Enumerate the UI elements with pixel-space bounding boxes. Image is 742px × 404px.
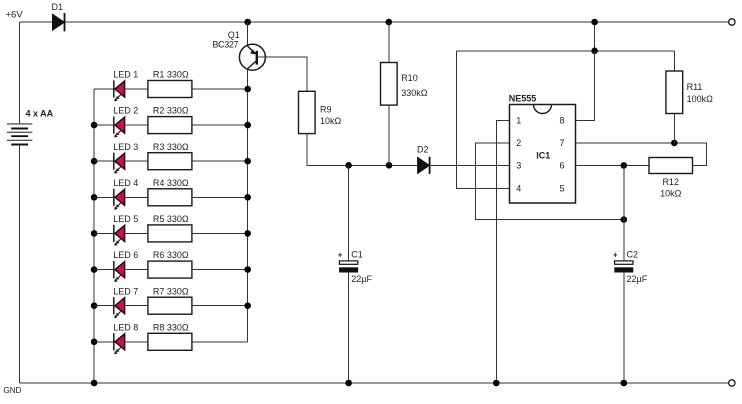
wire IC1 pin 2 lead bbox=[475, 143, 624, 220]
svg-text:22µF: 22µF bbox=[351, 274, 372, 284]
wire LED 1 cathode lead bbox=[94, 88, 114, 90]
node pin6 / R12 / C2 junction bbox=[621, 162, 628, 169]
wire left supply drop (top) bbox=[19, 22, 21, 124]
wire D2 cathode to IC1 pin 3 bbox=[430, 164, 510, 166]
wire Q1 base to R9 bbox=[257, 57, 307, 91]
node collector bus junction row 5 bbox=[244, 230, 251, 237]
resistor R7 330ohm bbox=[148, 286, 192, 314]
wire LED 5 cathode lead bbox=[94, 232, 114, 234]
wire LED 2 anode to R2 bbox=[125, 124, 148, 126]
wire R9 bottom to node line bbox=[307, 134, 349, 166]
wire LED 8 cathode lead bbox=[94, 341, 114, 343]
wire LED 7 anode to R7 bbox=[125, 305, 148, 307]
wire Q1 collector bus (right vertical) bbox=[247, 68, 249, 342]
wire LED 1 anode to R1 bbox=[125, 88, 148, 90]
svg-text:7: 7 bbox=[560, 138, 565, 148]
svg-text:LED 4: LED 4 bbox=[113, 178, 138, 188]
wire LED 8 anode to R8 bbox=[125, 341, 148, 343]
wire C2 bottom lead bbox=[623, 272, 625, 383]
node GND output terminal (open circle) bbox=[729, 380, 735, 386]
svg-text:BC327: BC327 bbox=[212, 40, 238, 50]
wire timing node to D2 anode bbox=[349, 164, 418, 166]
node distribution junction bbox=[591, 48, 598, 55]
resistor R12 10k bbox=[649, 158, 693, 199]
svg-text:R1 330Ω: R1 330Ω bbox=[153, 70, 189, 80]
node collector bus junction row 2 bbox=[244, 122, 251, 129]
wire R2 to collector bus bbox=[192, 124, 248, 126]
resistor R10 330k bbox=[381, 63, 428, 106]
wire IC1 pin 7 lead to R12 bbox=[576, 143, 707, 166]
resistor R11 100k bbox=[666, 71, 713, 114]
wire R4 to collector bus bbox=[192, 196, 248, 198]
LED LED7 bbox=[113, 286, 138, 318]
capacitor C1 22uF bbox=[338, 250, 373, 284]
wire R11 bottom lead bbox=[673, 114, 675, 143]
diode D2 bbox=[417, 145, 430, 174]
wire LED 3 anode to R3 bbox=[125, 160, 148, 162]
LED LED3 bbox=[113, 142, 138, 174]
node LED bus junction row 4 bbox=[91, 194, 98, 201]
svg-text:LED 7: LED 7 bbox=[113, 286, 138, 296]
node pin1 to GND rail bbox=[493, 380, 500, 387]
wire IC1 pin 1 lead to GND bbox=[496, 120, 509, 383]
node LED bus junction row 7 bbox=[91, 302, 98, 309]
node LED bus junction row 2 bbox=[91, 122, 98, 129]
svg-text:R7 330Ω: R7 330Ω bbox=[153, 286, 189, 296]
svg-text:R3 330Ω: R3 330Ω bbox=[153, 142, 189, 152]
diode D1 bbox=[52, 2, 65, 32]
wire LED 4 anode to R4 bbox=[125, 196, 148, 198]
node top rail junction at Q1 bbox=[244, 19, 251, 26]
wire LED 2 cathode lead bbox=[94, 124, 114, 126]
svg-text:LED 5: LED 5 bbox=[113, 214, 138, 224]
node R10 junction bbox=[386, 162, 393, 169]
svg-text:6: 6 bbox=[560, 161, 565, 171]
svg-text:GND: GND bbox=[4, 386, 22, 395]
wire +6V top rail bbox=[20, 21, 729, 23]
wire LED 4 cathode lead bbox=[94, 196, 114, 198]
LED LED4 bbox=[113, 178, 138, 210]
LED LED6 bbox=[113, 250, 138, 282]
wire R5 to collector bus bbox=[192, 232, 248, 234]
wire LED 7 cathode lead bbox=[94, 305, 114, 307]
wire Q1 emitter from +6V rail bbox=[247, 22, 249, 46]
svg-text:3: 3 bbox=[516, 161, 521, 171]
node C1 junction bbox=[345, 162, 352, 169]
svg-text:1: 1 bbox=[516, 115, 521, 125]
wire LED 6 cathode lead bbox=[94, 269, 114, 271]
wire IC1 pin 4 lead bbox=[457, 51, 510, 189]
svg-text:NE555: NE555 bbox=[509, 93, 537, 103]
node +6V output terminal (open circle) bbox=[729, 19, 735, 25]
node LED bus junction row 6 bbox=[91, 266, 98, 273]
transistor Q1 BC327 bbox=[212, 30, 265, 70]
svg-text:R2 330Ω: R2 330Ω bbox=[153, 106, 189, 116]
resistor R8 330ohm bbox=[148, 322, 192, 350]
svg-text:4: 4 bbox=[516, 184, 521, 194]
LED LED5 bbox=[113, 214, 138, 246]
svg-text:+: + bbox=[613, 251, 618, 260]
svg-text:LED 6: LED 6 bbox=[113, 250, 138, 260]
svg-text:8: 8 bbox=[560, 115, 565, 125]
capacitor C2 22uF bbox=[613, 250, 648, 284]
wire C1 bottom lead bbox=[348, 272, 350, 383]
node collector bus junction row 3 bbox=[244, 158, 251, 165]
wire LED 3 cathode lead bbox=[94, 160, 114, 162]
svg-text:LED 3: LED 3 bbox=[113, 142, 138, 152]
svg-text:Q1: Q1 bbox=[228, 30, 240, 40]
wire C2 top lead bbox=[623, 165, 625, 261]
svg-text:R8 330Ω: R8 330Ω bbox=[153, 322, 189, 332]
wire R6 to collector bus bbox=[192, 269, 248, 271]
resistor R6 330ohm bbox=[148, 250, 192, 278]
battery 4 x AA bbox=[7, 109, 54, 145]
svg-text:C1: C1 bbox=[351, 250, 363, 260]
node collector bus junction row 1 bbox=[244, 86, 251, 93]
node LED bus to GND rail junction bbox=[91, 380, 98, 387]
svg-text:22µF: 22µF bbox=[627, 274, 648, 284]
resistor R4 330ohm bbox=[148, 178, 192, 206]
wire IC1 pin 8 lead bbox=[576, 51, 595, 121]
resistor R3 330ohm bbox=[148, 142, 192, 170]
node collector bus junction row 6 bbox=[244, 266, 251, 273]
resistor R5 330ohm bbox=[148, 214, 192, 242]
node top rail junction at R10 bbox=[386, 19, 393, 26]
svg-text:R6 330Ω: R6 330Ω bbox=[153, 250, 189, 260]
svg-text:R12: R12 bbox=[662, 177, 679, 187]
svg-text:4 x AA: 4 x AA bbox=[26, 109, 54, 119]
LED LED8 bbox=[113, 322, 138, 354]
svg-text:100kΩ: 100kΩ bbox=[687, 94, 714, 104]
wire R7 to collector bus bbox=[192, 305, 248, 307]
svg-text:R5 330Ω: R5 330Ω bbox=[153, 214, 189, 224]
wire rail to distribution node bbox=[594, 22, 596, 51]
svg-text:10kΩ: 10kΩ bbox=[660, 188, 682, 198]
resistor R9 10k bbox=[299, 91, 342, 133]
node R11 bottom junction bbox=[671, 140, 678, 147]
node C2 to GND rail bbox=[621, 380, 628, 387]
node C1 to GND rail bbox=[345, 380, 352, 387]
wire LED 6 anode to R6 bbox=[125, 269, 148, 271]
svg-text:D2: D2 bbox=[417, 145, 429, 155]
wire R3 to collector bus bbox=[192, 160, 248, 162]
wire R8 to collector bus bbox=[192, 341, 248, 343]
node top rail junction at pin8 feed bbox=[591, 19, 598, 26]
wire LED 5 anode to R5 bbox=[125, 232, 148, 234]
wire left supply drop (bottom) bbox=[19, 145, 21, 384]
LED LED2 bbox=[113, 106, 138, 138]
resistor R2 330ohm bbox=[148, 106, 192, 134]
resistor R1 330ohm bbox=[148, 70, 192, 98]
svg-text:LED 1: LED 1 bbox=[113, 70, 138, 80]
node collector bus junction row 4 bbox=[244, 194, 251, 201]
LED LED1 bbox=[113, 70, 138, 102]
wire Vcc distribution (pin4 / pin8 / R11) bbox=[457, 50, 675, 52]
svg-text:R9: R9 bbox=[320, 105, 332, 115]
svg-text:+: + bbox=[338, 251, 343, 260]
wire R11 top lead bbox=[673, 51, 675, 71]
svg-text:C2: C2 bbox=[627, 250, 639, 260]
wire C1 top lead bbox=[348, 165, 350, 261]
wire R1 to collector bus bbox=[192, 88, 248, 90]
svg-text:LED 2: LED 2 bbox=[113, 106, 138, 116]
op-amp/timer IC1 NE555 bbox=[509, 93, 576, 203]
node collector bus junction row 7 bbox=[244, 302, 251, 309]
wire GND bottom rail bbox=[20, 382, 729, 384]
svg-text:R11: R11 bbox=[687, 82, 703, 92]
svg-text:IC1: IC1 bbox=[536, 150, 550, 160]
wire R10 bottom lead bbox=[388, 105, 390, 165]
svg-text:D1: D1 bbox=[52, 2, 64, 12]
svg-text:LED 8: LED 8 bbox=[113, 322, 138, 332]
node LED bus junction row 5 bbox=[91, 230, 98, 237]
wire LED cathode bus (left vertical) bbox=[93, 89, 95, 383]
svg-text:330kΩ: 330kΩ bbox=[401, 88, 428, 98]
svg-text:5: 5 bbox=[560, 184, 565, 194]
svg-text:R10: R10 bbox=[401, 73, 418, 83]
wire R10 top lead bbox=[388, 22, 390, 63]
node pin2 link to pin6 vertical bbox=[621, 216, 628, 223]
svg-text:+6V: +6V bbox=[6, 10, 24, 21]
svg-text:2: 2 bbox=[516, 138, 521, 148]
svg-text:10kΩ: 10kΩ bbox=[320, 116, 342, 126]
wire IC1 pin 6 lead bbox=[576, 164, 650, 166]
node LED bus junction row 3 bbox=[91, 158, 98, 165]
node LED bus junction row 8 bbox=[91, 339, 98, 346]
svg-text:R4 330Ω: R4 330Ω bbox=[153, 178, 189, 188]
